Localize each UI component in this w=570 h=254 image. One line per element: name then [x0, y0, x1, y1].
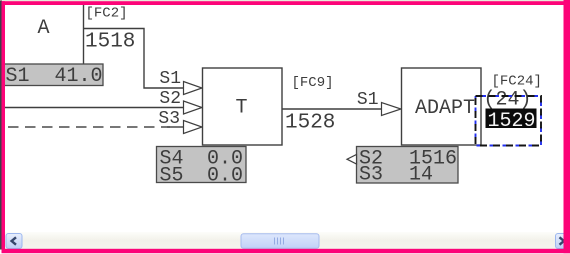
- svg-text:41.0: 41.0: [55, 65, 103, 88]
- svg-text:S2: S2: [159, 89, 181, 109]
- magenta frame top: [2, 1, 565, 5]
- table T input values S4 S5: [157, 147, 247, 188]
- block T: [203, 68, 283, 145]
- top hairline: [0, 0, 570, 1]
- magenta frame right: [564, 0, 570, 253]
- svg-text:S3: S3: [359, 164, 383, 187]
- svg-text:14: 14: [409, 164, 433, 187]
- svg-text:1528: 1528: [285, 112, 335, 135]
- svg-text:1518: 1518: [85, 31, 135, 54]
- input triangle S1 of T: [184, 82, 203, 95]
- input triangle S2 of T: [184, 101, 203, 114]
- svg-text:[FC9]: [FC9]: [292, 75, 334, 91]
- svg-text:[FC24]: [FC24]: [492, 74, 542, 90]
- magenta frame left: [2, 1, 6, 249]
- block ADAPT: [402, 68, 482, 145]
- scrollbar right button: [556, 234, 570, 249]
- wire into T input S2: [5, 107, 184, 109]
- wire A output to T input S1: [84, 29, 184, 89]
- svg-text:T: T: [235, 97, 247, 120]
- svg-text:S3: S3: [158, 109, 180, 129]
- svg-text:S1: S1: [6, 65, 30, 88]
- left dark edge: [0, 1, 2, 250]
- scrollbar track: [0, 232, 570, 250]
- svg-text:0.0: 0.0: [207, 165, 243, 188]
- svg-text:1529: 1529: [488, 110, 536, 133]
- magenta frame bottom: [2, 249, 570, 253]
- svg-text:S5: S5: [160, 165, 184, 188]
- svg-text:ADAPT: ADAPT: [415, 97, 475, 120]
- svg-text:A: A: [38, 17, 50, 40]
- scrollbar left button: [6, 234, 22, 249]
- scrollbar thumb: [241, 234, 319, 249]
- table A input value S1 41.0: [3, 64, 103, 88]
- connection triangle left of table: [347, 155, 357, 165]
- input triangle S1 of ADAPT: [382, 103, 402, 116]
- svg-text:S1: S1: [159, 69, 181, 89]
- input triangle S3 of T: [184, 121, 203, 134]
- wire T output to ADAPT input S1: [282, 108, 382, 110]
- selected value box 1529: [486, 109, 537, 134]
- table ADAPT input values S2 S3: [357, 147, 459, 187]
- wire (dashed) into T input S3: [8, 126, 184, 128]
- selection marquee (dashed): [476, 96, 542, 146]
- svg-text:(24): (24): [484, 89, 532, 112]
- svg-text:[FC2]: [FC2]: [86, 6, 128, 22]
- block A: [38, 4, 84, 65]
- svg-text:S1: S1: [357, 90, 379, 110]
